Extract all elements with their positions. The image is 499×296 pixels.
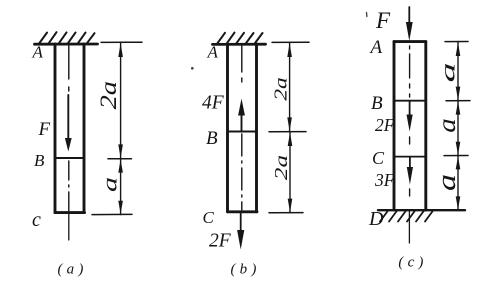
svg-text:C: C bbox=[372, 148, 385, 168]
centerline dot C-D (c) bbox=[409, 189, 411, 196]
dimension line a middle (c) bbox=[456, 101, 461, 156]
dimension line a (a) bbox=[118, 159, 123, 215]
dimension extension tick B (c) bbox=[446, 100, 470, 102]
centerline (b) lower bbox=[241, 134, 243, 210]
section line B (b) bbox=[229, 131, 256, 133]
force 4F arrow (b) bbox=[238, 99, 245, 132]
centerline (b) upper bbox=[241, 46, 243, 95]
section line C (c) bbox=[395, 156, 425, 158]
svg-text:(a): (a) bbox=[57, 262, 87, 278]
svg-text:3F: 3F bbox=[374, 170, 395, 190]
dimension extension tick top (b) bbox=[272, 41, 309, 43]
dimension extension tick middle (b) bbox=[269, 131, 306, 133]
svg-text:2a: 2a bbox=[95, 81, 121, 109]
svg-text:a: a bbox=[437, 62, 459, 82]
svg-text:B: B bbox=[371, 93, 383, 114]
svg-text:A: A bbox=[369, 37, 383, 58]
svg-text:C: C bbox=[203, 208, 215, 227]
svg-text:(c): (c) bbox=[398, 255, 427, 271]
dimension line a upper (c) bbox=[456, 42, 461, 101]
section line B (c) bbox=[395, 100, 425, 102]
ink speck left of figure c force F bbox=[366, 13, 368, 17]
dimension extension tick C (c) bbox=[444, 155, 468, 157]
svg-text:a: a bbox=[433, 118, 461, 132]
centerline (c) segment A-B bbox=[409, 46, 411, 99]
ink speck near figure b bbox=[191, 67, 194, 70]
ceiling line (b) bbox=[213, 43, 266, 46]
dimension extension tick bottom (a) bbox=[92, 213, 132, 215]
svg-text:(b): (b) bbox=[230, 262, 260, 278]
svg-text:A: A bbox=[32, 43, 44, 62]
svg-text:D: D bbox=[368, 208, 384, 230]
dimension line 2a upper (b) bbox=[287, 42, 292, 131]
svg-text:a: a bbox=[432, 174, 461, 191]
svg-text:B: B bbox=[34, 151, 45, 170]
svg-text:2a: 2a bbox=[270, 77, 291, 100]
centerline extension below ground (c) bbox=[408, 210, 410, 243]
force F arrow (c) bbox=[406, 7, 413, 41]
bar outline (b) bbox=[228, 44, 258, 212]
ceiling line (a) bbox=[35, 43, 98, 46]
dimension extension tick middle (a) bbox=[108, 158, 132, 160]
svg-text:A: A bbox=[207, 43, 219, 62]
dimension line 2a lower (b) bbox=[288, 132, 293, 213]
dimension extension tick bottom (b) bbox=[269, 212, 303, 214]
svg-text:2a: 2a bbox=[271, 155, 292, 180]
svg-text:2F: 2F bbox=[209, 231, 232, 252]
force F arrow (a) bbox=[65, 95, 72, 152]
centerline (a) lower bbox=[68, 161, 70, 211]
ground line (c) bbox=[378, 209, 465, 211]
bar outline (a) bbox=[55, 44, 85, 213]
svg-text:F: F bbox=[375, 8, 391, 33]
force 3F arrow (c) bbox=[407, 158, 413, 185]
dimension extension tick top (a) bbox=[101, 41, 142, 43]
fixed support hatching (b) bbox=[217, 33, 263, 44]
ground hatching (c) bbox=[380, 211, 433, 222]
centerline extension below bar (a) bbox=[68, 214, 70, 240]
fixed support hatching (a) bbox=[39, 32, 95, 44]
bar outline (c) bbox=[394, 42, 426, 210]
svg-text:a: a bbox=[98, 177, 121, 192]
dimension line 2a (a) bbox=[118, 42, 123, 158]
section line B (a) bbox=[56, 157, 83, 159]
svg-text:B: B bbox=[206, 128, 218, 149]
dimension line a lower (c) bbox=[456, 156, 461, 211]
force 2F arrow (b) bbox=[237, 212, 244, 250]
svg-text:2F: 2F bbox=[375, 115, 395, 135]
svg-text:c: c bbox=[32, 209, 41, 231]
force 2F arrow (c) bbox=[407, 102, 413, 132]
svg-text:F: F bbox=[38, 119, 51, 140]
centerline (a) upper bbox=[68, 46, 70, 93]
centerline dot B-C (c) bbox=[409, 137, 411, 144]
svg-text:4F: 4F bbox=[202, 93, 225, 114]
dimension extension tick top (c) bbox=[445, 41, 468, 43]
